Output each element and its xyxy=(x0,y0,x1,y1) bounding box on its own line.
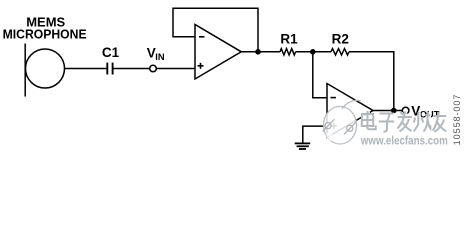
svg-text:R2: R2 xyxy=(332,31,349,46)
svg-text:10558-007: 10558-007 xyxy=(452,94,462,146)
svg-text:C1: C1 xyxy=(102,45,120,60)
svg-text:R1: R1 xyxy=(280,31,298,46)
svg-text:IN: IN xyxy=(155,52,165,62)
svg-text:MICROPHONE: MICROPHONE xyxy=(3,27,87,42)
svg-text:www.elecfans.com: www.elecfans.com xyxy=(360,133,448,147)
